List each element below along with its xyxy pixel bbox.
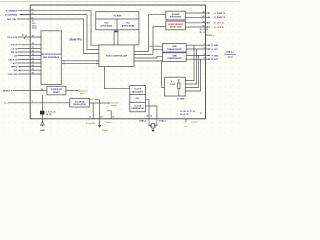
svg-text:USB: USB	[172, 55, 177, 57]
wire DP1 drop to pulldown	[185, 49, 196, 84]
svg-text:26: 26	[32, 69, 34, 71]
block U1 microprocessor bus interface	[41, 31, 61, 85]
svg-text:32: 32	[32, 9, 34, 11]
svg-text:reset: reset	[80, 92, 85, 95]
pin numbers data bus stack	[32, 20, 38, 30]
resistor R pulldown symbol	[178, 79, 180, 96]
crystal X1 plates	[151, 124, 155, 128]
chip outer boundary box	[30, 5, 205, 119]
wire LOW_PWR	[18, 73, 42, 75]
arrowheads USB ports	[208, 45, 210, 60]
wire clock generator to XTAL2	[146, 106, 157, 119]
svg-text:n.c.: n.c.	[184, 126, 188, 128]
svg-text:29, 38: 29, 38	[46, 114, 51, 116]
wire DREQ output	[19, 66, 41, 68]
wire overcurrent port 2 input	[186, 26, 206, 28]
svg-text:H_DP1: H_DP1	[212, 49, 219, 51]
block power switching	[166, 11, 186, 20]
wire aux pin below rail	[99, 119, 101, 126]
svg-text:OVERCURRENT: OVERCURRENT	[168, 24, 184, 26]
svg-text:3.3 V: 3.3 V	[90, 99, 95, 101]
stub Vh supply	[206, 34, 213, 36]
svg-text:H_OC2_N: H_OC2_N	[214, 27, 224, 29]
wire DP2 drop to pulldown	[185, 59, 200, 91]
svg-text:ITL RAM: ITL RAM	[113, 14, 121, 17]
svg-text:D0 to D15: D0 to D15	[8, 36, 18, 39]
svg-text:V₄: V₄	[213, 35, 215, 37]
svg-text:17: 17	[32, 18, 34, 20]
svg-text:REGULATOR: REGULATOR	[73, 103, 86, 106]
svg-text:28: 28	[32, 43, 34, 45]
svg-text:RESET: RESET	[53, 92, 60, 94]
svg-text:LOW_PW: LOW_PW	[8, 74, 17, 76]
svg-text:GENERATOR: GENERATOR	[131, 107, 144, 110]
wire PLL to XTAL1	[146, 99, 150, 119]
block USB transceiver 1	[163, 44, 187, 53]
block USB transceiver 2	[163, 53, 187, 62]
wire internal reset arrow	[66, 90, 78, 92]
block clock recovery / PLL / clock generator stack	[130, 86, 146, 112]
svg-text:16: 16	[22, 34, 24, 36]
svg-text:CLOCK: CLOCK	[134, 105, 142, 107]
wire GND pad to external ground	[41, 115, 43, 122]
ground symbol left	[41, 122, 45, 127]
svg-text:H_WAKEUP: H_WAKEUP	[6, 10, 18, 13]
svg-text:19: 19	[112, 117, 114, 119]
svg-text:31: 31	[150, 116, 152, 118]
svg-text:39: 39	[203, 12, 205, 14]
label voltage regulator	[73, 100, 86, 106]
svg-text:V₀₀: V₀₀	[4, 103, 7, 105]
svg-text:ITL1: ITL1	[126, 23, 131, 25]
pin numbers top-left pins	[32, 9, 34, 19]
wire host controller to transceiver 1 b	[134, 50, 163, 55]
svg-text:8 ×: 8 ×	[171, 80, 175, 83]
wire NDP_SEL	[17, 19, 99, 54]
svg-text:25: 25	[32, 50, 34, 52]
label microprocessor bus interface	[41, 54, 61, 59]
svg-text:SRAM FIFO: SRAM FIFO	[69, 38, 82, 41]
svg-text:(PONG RAM): (PONG RAM)	[122, 25, 135, 28]
GND pad on chip	[40, 111, 45, 115]
wire port H_DM2	[186, 54, 205, 56]
svg-text:GND: GND	[40, 130, 45, 132]
wire power switching port 1 output	[186, 12, 206, 14]
svg-text:35: 35	[32, 61, 34, 63]
svg-text:T filter: T filter	[105, 121, 111, 124]
svg-text:5: 5	[204, 54, 205, 56]
wire data bus D0 to D15	[18, 35, 42, 39]
wire DACK_N	[18, 59, 42, 61]
wire internal supply branch to bottom rail	[107, 111, 111, 119]
svg-text:13: 13	[89, 117, 91, 119]
svg-text:HOST CONTROLLER: HOST CONTROLLER	[106, 55, 128, 57]
svg-text:USB: USB	[172, 46, 177, 48]
external stub H_PSW1_N	[206, 12, 210, 14]
wire host controller to transceiver 2 a	[134, 56, 163, 58]
wire RAM bottom-right to host controller top	[134, 30, 139, 45]
svg-text:24: 24	[32, 53, 34, 56]
wire RESET_N	[13, 90, 47, 92]
pin numbers left pins column	[32, 35, 34, 74]
svg-text:CS_N: CS_N	[12, 48, 18, 50]
wire RD_N	[18, 44, 42, 46]
label power-on reset	[51, 89, 63, 94]
label USB transceiver 2	[167, 55, 182, 60]
svg-text:supply: supply	[111, 105, 119, 107]
wire EOT	[18, 62, 42, 64]
svg-text:SWITCHING: SWITCHING	[170, 17, 182, 19]
svg-text:H_PSW1_N: H_PSW1_N	[214, 13, 225, 15]
svg-text:to GND: to GND	[177, 97, 185, 100]
svg-text:30: 30	[146, 116, 148, 118]
label USB bus downstream ports	[224, 52, 236, 59]
svg-text:ITL0: ITL0	[104, 23, 109, 25]
label ITL RAM title and cells	[101, 14, 135, 27]
svg-text:A0: A0	[14, 55, 17, 58]
svg-text:15 kΩ: 15 kΩ	[170, 84, 176, 86]
svg-text:RD_N: RD_N	[11, 45, 17, 47]
crystal X1 leads	[149, 119, 157, 126]
svg-text:H_DP2: H_DP2	[212, 59, 219, 61]
svg-text:V reg(3.3): V reg(3.3)	[86, 123, 95, 125]
pin numbers right top	[203, 12, 205, 28]
svg-text:23: 23	[101, 117, 103, 119]
wire port H_DM1	[186, 44, 205, 46]
block pulldown resistor network	[165, 77, 186, 96]
arrowhead H_SUSPEND	[19, 14, 22, 16]
wire port H_DP1	[186, 48, 205, 50]
svg-text:BUS INTERFACE: BUS INTERFACE	[43, 56, 60, 59]
svg-text:6: 6	[204, 58, 205, 60]
svg-text:TRANSCEIVER: TRANSCEIVER	[167, 57, 182, 60]
svg-text:NDP_SEL: NDP_SEL	[7, 19, 17, 21]
label power switching	[170, 14, 182, 19]
wire overcurrent to core	[153, 27, 166, 55]
arrowhead RAM connector	[114, 30, 119, 32]
wire overcurrent port 1 input	[186, 22, 206, 24]
wire H_SUSPEND with output arrow	[20, 15, 99, 50]
bus wire interface to host controller upper	[62, 60, 99, 62]
svg-text:29: 29	[41, 89, 43, 91]
labels USB port pins	[212, 45, 220, 61]
arrowheads bus upper	[62, 60, 64, 61]
figure top border	[0, 1, 240, 3]
wire power switching to core	[149, 15, 166, 52]
svg-text:RESET_N: RESET_N	[3, 90, 13, 92]
svg-text:H_OC1_N: H_OC1_N	[214, 23, 224, 25]
block overcurrent detection	[166, 21, 186, 30]
pin number Vreg	[89, 117, 114, 119]
label GND pad pin list	[46, 111, 56, 116]
svg-text:VOLTAGE: VOLTAGE	[75, 100, 85, 103]
wire POR branch vertical	[41, 95, 43, 111]
svg-text:POWER: POWER	[172, 14, 180, 16]
wire host controller to clock recovery	[104, 67, 129, 89]
label n.c. pin list rows	[180, 111, 196, 116]
svg-text:10, 11: 10, 11	[200, 32, 205, 34]
svg-text:INT: INT	[14, 70, 18, 72]
svg-text:DREQ: DREQ	[11, 67, 17, 69]
label internal 48 MHz	[111, 102, 119, 108]
label internal reset	[80, 90, 88, 96]
arrowhead internal reset	[77, 90, 79, 91]
svg-text:30: 30	[32, 72, 34, 74]
svg-text:ports: ports	[228, 56, 234, 59]
svg-text:DETECTION: DETECTION	[170, 27, 182, 29]
svg-text:(PING RAM): (PING RAM)	[101, 25, 113, 28]
label pulldown resistors value	[170, 80, 176, 86]
svg-text:41: 41	[203, 25, 205, 28]
ground symbol bottom middle	[98, 125, 101, 127]
svg-text:37: 37	[200, 113, 202, 115]
pin numbers XTAL	[146, 116, 152, 118]
wire H_WAKEUP	[18, 11, 99, 46]
wire power switching port 2 output	[186, 16, 206, 18]
svg-text:XTAL1: XTAL1	[139, 119, 147, 122]
svg-text:34: 34	[32, 64, 34, 67]
svg-text:18, 17, 16,: 18, 17, 16,	[200, 29, 209, 31]
block voltage regulator	[70, 99, 90, 107]
svg-text:PLL: PLL	[136, 98, 141, 100]
svg-text:H_PSW2_N: H_PSW2_N	[214, 17, 225, 19]
svg-text:TRANSCEIVER: TRANSCEIVER	[167, 48, 182, 51]
wire voltage regulator output 3.3V	[90, 103, 110, 119]
external stubs USB ports	[206, 45, 211, 59]
wire CS_N	[18, 47, 42, 49]
block host controller	[99, 45, 134, 67]
svg-text:DACK_N: DACK_N	[8, 58, 17, 61]
stub n.c. below rail	[185, 119, 187, 123]
block ITL RAM	[96, 12, 139, 30]
svg-text:20, 28, 33, 37, 39,: 20, 28, 33, 37, 39,	[180, 111, 196, 113]
svg-text:42: 42	[203, 15, 205, 18]
svg-text:internal: internal	[111, 102, 119, 105]
wire crystal to ground	[152, 128, 154, 130]
wire DM2 drop to pulldown	[185, 55, 198, 87]
wire RAM to host controller left connector	[113, 30, 115, 45]
wire RAM to host controller right connector	[117, 30, 119, 45]
svg-text:40, 41, 47: 40, 41, 47	[180, 113, 188, 116]
svg-text:H_SUSPEND: H_SUSPEND	[5, 15, 18, 17]
svg-text:19-22: 19-22	[32, 28, 37, 30]
crystal X1 body	[152, 123, 155, 128]
svg-text:3: 3	[204, 48, 205, 50]
svg-text:27: 27	[32, 47, 34, 49]
arrowhead DREQ	[18, 66, 20, 67]
svg-text:CLOCK: CLOCK	[134, 89, 142, 91]
label USB transceiver 1	[167, 46, 182, 51]
wire DM1 drop to pulldown	[185, 45, 194, 80]
svg-text:RECOVERY: RECOVERY	[132, 91, 144, 93]
svg-text:XTAL2: XTAL2	[159, 119, 167, 122]
svg-text:36: 36	[32, 35, 34, 37]
ground symbol crystal	[151, 130, 154, 132]
wire INT output	[19, 69, 41, 71]
bus wire interface to host controller lower	[62, 63, 99, 65]
block power-on reset	[47, 86, 66, 95]
arrowhead internal supply	[108, 102, 110, 103]
external stub H_OC2_N	[207, 26, 211, 28]
svg-text:unused: unused	[191, 122, 199, 124]
wire WR_N	[18, 51, 42, 53]
arrowheads bus lower	[62, 63, 64, 64]
svg-text:31: 31	[32, 13, 34, 15]
svg-text:1: 1	[32, 101, 33, 103]
external stub H_PSW2_N	[206, 16, 210, 18]
pin numbers USB ports	[204, 44, 205, 60]
wire host controller to transceiver 1 a	[134, 46, 163, 51]
external stub H_OC1_N	[207, 22, 211, 24]
wire clkout pin	[95, 100, 100, 119]
arrowhead INT	[18, 70, 20, 71]
wire Vcc	[8, 102, 70, 104]
label clock stack	[131, 89, 144, 111]
svg-text:internal: internal	[80, 90, 88, 93]
svg-text:40: 40	[203, 20, 205, 23]
svg-text:33: 33	[32, 58, 34, 60]
svg-text:V hold: V hold	[102, 130, 109, 132]
wire port H_DP2	[186, 58, 205, 60]
wire host controller to transceiver 2 b and resistor box	[134, 60, 165, 87]
svg-text:H_DM1: H_DM1	[212, 45, 220, 47]
label overcurrent detection	[168, 24, 184, 29]
wire A0	[18, 55, 42, 57]
svg-text:H_DM2: H_DM2	[212, 55, 220, 57]
svg-text:POWER-ON: POWER-ON	[51, 89, 63, 91]
svg-text:2: 2	[204, 44, 205, 46]
svg-text:EOT: EOT	[13, 63, 18, 65]
svg-text:WR_N: WR_N	[11, 52, 18, 54]
